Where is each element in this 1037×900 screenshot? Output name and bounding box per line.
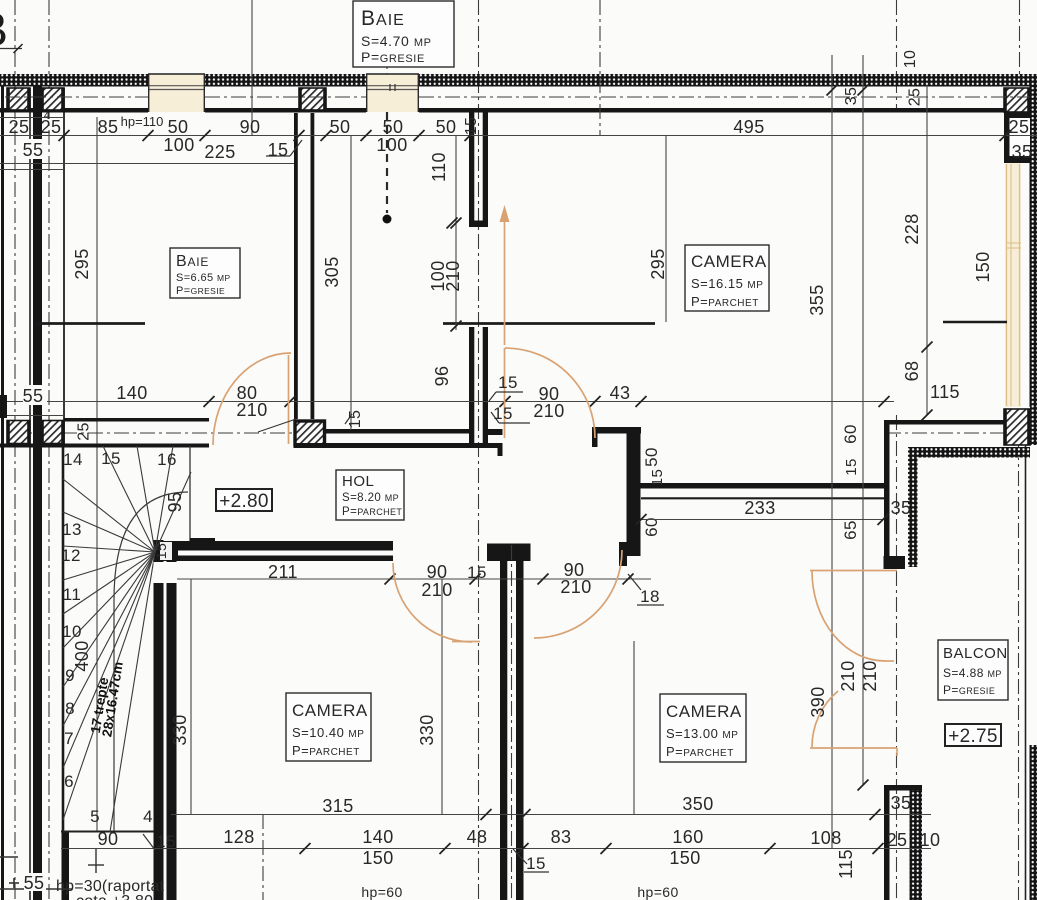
svg-text:13: 13 [62,520,82,539]
svg-text:115: 115 [836,849,856,879]
svg-text:400: 400 [72,640,92,671]
svg-text:CAMERA: CAMERA [292,701,368,720]
room label BAIE top [353,1,454,67]
svg-text:330: 330 [417,714,437,745]
hatched pier right [1004,88,1030,112]
svg-text:35: 35 [1012,142,1033,162]
svg-text:83: 83 [551,827,572,847]
svg-text:14: 14 [63,450,83,469]
svg-text:15: 15 [498,373,518,392]
level +2.80 [216,489,272,511]
svg-text:160: 160 [672,827,703,847]
dim line bottom B [61,848,931,850]
svg-text:90: 90 [427,562,448,582]
stair bottom line [61,831,154,833]
z wall lower thin line [641,497,884,499]
room label HOL [336,470,404,520]
svg-text:50: 50 [383,117,404,137]
svg-text:90: 90 [240,117,261,137]
svg-text:15: 15 [467,563,487,582]
svg-text:35: 35 [891,498,912,518]
party wall solid [33,86,42,900]
door baie-left [213,353,291,445]
interior line y323 center [443,322,655,325]
axis line left 1 [14,0,16,900]
wall B lower [469,327,474,448]
svg-text:210: 210 [860,660,880,691]
leader 18 [628,574,641,590]
balcony door lower leaf [812,691,838,747]
svg-text:43: 43 [610,383,631,403]
svg-text:128: 128 [223,827,254,847]
hol north wall bottom edge [294,443,503,448]
svg-text:25: 25 [76,422,93,441]
dash axes bottom [262,814,264,900]
svg-text:10: 10 [920,830,941,850]
hol west wall stub [190,538,215,541]
svg-text:305: 305 [322,256,342,287]
svg-text:CAMERA: CAMERA [691,252,767,271]
top wall bottom thick line [0,108,148,113]
svg-text:295: 295 [72,248,92,279]
door camera-br [534,550,622,638]
svg-text:100: 100 [376,135,407,155]
interior line y323 left [37,322,145,325]
svg-text:16: 16 [157,450,177,469]
z wall stem [627,433,641,548]
baie south wall top edge [64,418,209,422]
svg-text:228: 228 [902,213,922,244]
svg-text:60: 60 [841,424,860,444]
door camera-bl [393,563,472,642]
svg-text:55: 55 [23,386,44,406]
left exterior line [1,74,4,900]
leader 15 pair center [496,391,523,393]
extension line x252 [251,0,253,135]
svg-text:50: 50 [436,117,457,137]
svg-text:25: 25 [907,88,924,107]
dim line top row2 [0,163,294,165]
balcony west wall outer edge upper [884,420,890,569]
svg-text:355: 355 [807,284,827,315]
svg-text:225: 225 [204,142,235,162]
left wall inner line B [63,88,65,446]
wall A upper [469,112,474,227]
svg-text:65: 65 [841,520,860,540]
svg-text:150: 150 [669,848,700,868]
svg-text:BAIE: BAIE [176,253,209,270]
axis line left 2 [48,0,50,900]
room label CAMERA bottom-right [660,694,746,762]
svg-text:4: 4 [143,807,153,826]
leader 15 bottom left [143,834,155,850]
svg-text:15: 15 [843,458,860,476]
interior line y322 right [943,321,1007,323]
svg-text:96: 96 [432,366,452,387]
balcony west wall lower [884,785,922,791]
svg-text:110: 110 [429,152,449,182]
svg-text:15: 15 [463,117,480,136]
hatch square junction [294,420,327,447]
T wall cap [487,544,531,562]
svg-text:25: 25 [1009,117,1030,137]
hatched pier left B [41,88,64,110]
svg-text:68: 68 [902,361,922,382]
door hol-camera arc [505,348,595,438]
room label BAIE left [170,248,240,298]
room label BALCON [938,640,1008,700]
svg-text:8: 8 [65,699,75,718]
room label CAMERA top-right [685,245,769,311]
top wall insulation strip [0,74,148,87]
svg-text:210: 210 [838,660,858,691]
hatched pier left A [7,88,30,110]
right wall pier lower [1004,407,1030,445]
svg-text:CAMERA: CAMERA [666,702,742,721]
ticks doors row [385,574,396,585]
svg-text:P=PARCHET: P=PARCHET [342,506,402,518]
svg-text:hp=110: hp=110 [121,114,164,129]
baie south piers [7,421,30,444]
svg-text:210: 210 [236,400,267,420]
dim verticals interior [350,135,352,430]
window W1 top-left [148,74,205,112]
svg-text:108: 108 [810,828,841,848]
svg-text:HOL: HOL [342,473,374,490]
svg-text:295: 295 [648,248,668,279]
stairs walk line [114,492,188,831]
left edge black mark [0,395,7,418]
leader 15 wall(305) [345,414,352,424]
svg-text:60: 60 [642,517,661,537]
svg-text:140: 140 [116,383,147,403]
dim line doors row [154,578,651,580]
axis line right [896,0,898,112]
svg-text:210: 210 [560,577,591,597]
svg-text:5: 5 [90,807,100,826]
svg-text:35: 35 [843,87,860,106]
svg-text:18: 18 [640,587,660,606]
baie south wall bottom edge [0,444,209,448]
axis x600 top [599,0,601,135]
svg-text:48: 48 [467,827,488,847]
svg-text:350: 350 [682,794,713,814]
door arrow baie-top [504,222,506,345]
svg-text:10: 10 [62,622,82,641]
svg-text:495: 495 [733,117,764,137]
svg-text:211: 211 [268,562,298,582]
hol north wall top edge [326,429,470,434]
svg-text:+2.80: +2.80 [219,491,269,512]
svg-text:210: 210 [533,401,564,421]
svg-text:S=4.88 MP: S=4.88 MP [943,666,1002,680]
dim line top row [0,135,1037,137]
svg-text:hp=60: hp=60 [361,884,402,900]
svg-text:11: 11 [63,585,81,604]
dim line bottom A [171,814,931,816]
z wall top bar [592,427,641,434]
svg-text:85: 85 [98,117,119,137]
svg-text:15: 15 [526,854,546,873]
horizontal axis top band [5,96,148,98]
horizontal axis baie wall [10,432,293,434]
left wall inner line A [29,88,31,900]
svg-text:P=GRESIE: P=GRESIE [176,285,225,297]
svg-text:330: 330 [170,714,190,745]
right window vertical [1005,163,1021,407]
right insulation strip vertical [1030,86,1037,445]
svg-text:315: 315 [322,796,353,816]
stairs fan [63,479,155,552]
svg-text:390: 390 [808,686,828,717]
dim line 233 [641,519,883,521]
svg-text:25: 25 [887,830,908,850]
ticks bottom row A [481,809,492,820]
svg-text:7: 7 [64,729,74,748]
svg-text:100: 100 [163,135,194,155]
svg-text:90: 90 [98,829,119,849]
dims hol row [23,385,47,405]
ticks vertical dims [451,218,462,229]
balcony door upper leaf [812,571,885,661]
leader 15 bottom stem [513,849,527,864]
hatched pier center [299,88,326,110]
svg-text:hp=60: hp=60 [637,884,678,900]
camera-bl north wall [154,541,394,561]
dim verticals bottom rooms [633,641,635,814]
svg-text:140: 140 [362,827,393,847]
dim line vertical 295 [96,117,98,831]
svg-text:210: 210 [421,580,452,600]
svg-text:15: 15 [156,832,176,851]
right insulation strip bottom [1030,745,1037,900]
svg-text:115: 115 [930,382,960,402]
axis line center [478,0,480,900]
svg-text:55: 55 [23,140,44,160]
svg-text:50: 50 [168,117,189,137]
dims top row2 [23,139,47,159]
dashed axis w2 [386,2,388,74]
svg-text:15: 15 [153,543,169,559]
T wall stem [500,561,507,900]
svg-text:150: 150 [362,848,393,868]
hol west boundary line [189,446,191,541]
axis line far right [1019,0,1021,74]
svg-text:15: 15 [649,469,666,487]
svg-text:4: 4 [44,110,51,122]
svg-text:S=8.20 MP: S=8.20 MP [342,492,399,504]
svg-text:15: 15 [101,449,121,468]
dim line hol row [0,401,894,403]
svg-text:35: 35 [891,793,912,813]
svg-text:50: 50 [330,117,351,137]
balcony inner insulation L [908,447,1030,458]
right lower boundary lines [1025,445,1027,900]
svg-text:233: 233 [744,498,775,518]
svg-text:210: 210 [443,260,463,291]
z wall foot [619,542,641,556]
svg-text:cota +3.80: cota +3.80 [76,893,153,900]
balcony north wall outer edge [884,420,1005,425]
svg-text:12: 12 [61,546,81,565]
wall baie-left east [294,113,298,419]
svg-text:+2.75: +2.75 [948,726,998,747]
ticks bottom row B [300,843,311,854]
svg-text:25: 25 [9,117,30,137]
z wall mid line thick [640,483,888,489]
svg-text:15: 15 [493,404,513,423]
window W2 top-middle [366,74,419,112]
svg-text:S=6.65 MP: S=6.65 MP [176,272,231,284]
svg-text:10: 10 [902,50,919,69]
svg-text:15: 15 [268,140,289,160]
balcony west wall foot [884,556,906,569]
camera-bl west wall [167,556,177,900]
svg-text:6: 6 [64,772,74,791]
ticks hol dim row [204,396,215,407]
svg-text:95: 95 [165,492,185,513]
svg-text:BALCON: BALCON [943,645,1008,662]
room label CAMERA bottom-left [286,693,371,761]
right wall box with 25/35 labels [1004,112,1030,163]
svg-text:55: 55 [24,873,45,893]
level +2.75 [945,724,1001,746]
leader 15 top [266,155,290,157]
svg-text:150: 150 [973,251,993,282]
svg-text:50: 50 [642,447,661,467]
svg-text:15: 15 [347,410,364,429]
T wall axis [511,545,513,900]
ticks top dim row [59,130,70,141]
left small lines [0,117,64,119]
left bottom marks [0,856,18,858]
svg-text:P=GRESIE: P=GRESIE [943,683,995,697]
stair east wall [154,540,164,900]
